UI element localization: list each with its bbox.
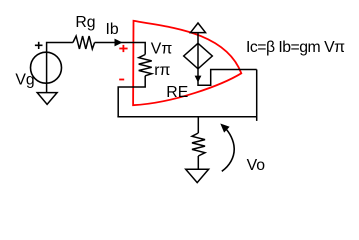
svg-text:rπ: rπ — [154, 62, 170, 79]
svg-text:RE: RE — [166, 84, 188, 101]
svg-text:Vo: Vo — [247, 157, 266, 174]
svg-text:Ic=β Ib=gm Vπ: Ic=β Ib=gm Vπ — [246, 39, 345, 56]
svg-text:Ib: Ib — [106, 21, 119, 38]
svg-text:Vπ: Vπ — [151, 40, 173, 57]
svg-text:Rg: Rg — [75, 14, 95, 31]
svg-text:Vg: Vg — [15, 72, 34, 89]
